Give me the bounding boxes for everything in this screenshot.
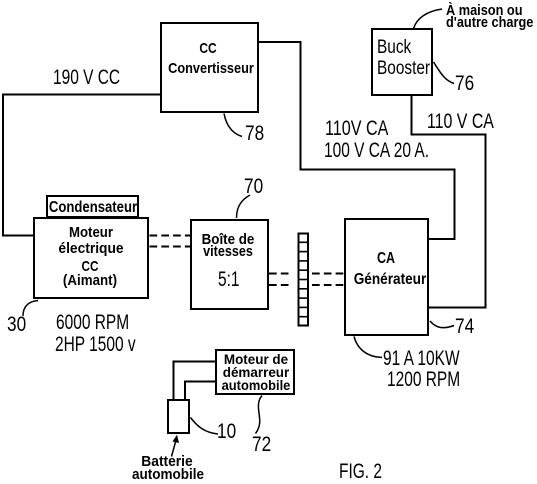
box: Moteur électrique CC (DC electric motor) 30	[33, 217, 149, 299]
label: 110V CA	[325, 118, 388, 140]
label: 110 V CA	[427, 111, 494, 133]
leader: to label 91 A 10KW	[354, 337, 382, 358]
reference numeral 70	[244, 176, 263, 198]
leader: to numeral 76	[434, 62, 455, 84]
coupling: chain/belt hatched bar	[299, 234, 309, 326]
shaft: dashed gearbox to generator lower	[269, 284, 290, 286]
wire: vertical x=454.5 down	[454, 169, 456, 241]
reference numeral 10	[217, 421, 236, 443]
label: gear ratio 5:1	[218, 269, 240, 291]
wire: CC Convertisseur output right	[258, 41, 302, 43]
leader: to numeral 74	[430, 321, 454, 328]
leader: to numeral 70	[237, 195, 251, 218]
reference numeral 72	[252, 434, 271, 456]
reference numeral 78	[245, 123, 264, 145]
label: Boîte de vitesses text	[157, 232, 299, 247]
shaft: dashed gearbox to generator upper	[269, 273, 290, 275]
label: 6000 RPM	[56, 312, 129, 334]
label: 190 V CC	[53, 67, 120, 89]
label: CA Générateur text	[323, 251, 448, 267]
label: Moteur électrique CC (Aimant) text	[21, 225, 162, 240]
leader: to numeral 78	[224, 114, 242, 137]
label: FIG. 2	[339, 461, 382, 483]
wire: 110 V CA vertical x=485.5	[485, 134, 487, 308]
reference numeral 30	[7, 314, 26, 336]
wire: battery to starter motor upper	[174, 362, 216, 401]
label: 1200 RPM	[387, 369, 460, 391]
reference numeral 76	[455, 73, 474, 95]
leader: to numeral 72	[256, 396, 263, 434]
shaft: dashed motor to gearbox upper	[150, 235, 191, 237]
arrow: to À maison ou d'autre charge	[414, 9, 443, 29]
label: Batterie automobile text	[93, 454, 240, 469]
wire: 190V CC horizontal from left riser to CC Convertisseur	[2, 94, 160, 96]
label: 2HP 1500 v	[55, 334, 136, 356]
label: À maison ou d'autre charge	[446, 3, 523, 18]
reference numeral 74	[455, 316, 474, 338]
wire: into Moteur électrique left side	[2, 235, 34, 237]
wire: into CA Générateur right side y=239	[428, 238, 456, 240]
box: CC Convertisseur (DC converter) U78	[160, 22, 259, 113]
wire: left vertical riser	[2, 94, 4, 237]
label: Condensateur text	[27, 200, 158, 216]
wire: horizontal y=134.5	[411, 134, 487, 136]
label: CC Convertisseur text	[144, 41, 272, 56]
label: Moteur de démarreur automobile text	[179, 352, 333, 366]
shaft: dashed motor to gearbox lower	[150, 246, 191, 248]
leader: to numeral 10	[191, 418, 219, 435]
box: Buck Booster U76	[371, 28, 433, 96]
box: Condensateur (capacitor)	[46, 195, 139, 218]
box: CA Générateur (AC generator) 74	[344, 218, 429, 336]
wire: vertical drop x=303.5	[300, 41, 302, 171]
label: Buck Booster text	[377, 38, 411, 57]
wire: Buck Booster bottom drop	[411, 95, 413, 136]
wire: into CA Générateur right side y=306.5	[428, 307, 487, 309]
leader: to numeral 30	[23, 301, 38, 317]
box: Moteur de démarreur automobile (car starter motor) 72	[215, 349, 295, 395]
wire: battery to starter motor lower	[185, 382, 216, 401]
box: Boîte de vitesses (gearbox) 70	[190, 219, 269, 310]
box: Batterie automobile (car battery) 10	[167, 399, 190, 434]
wire: horizontal y=169	[300, 169, 456, 171]
label: 100 V CA 20 A	[324, 140, 429, 162]
label: 91 A 10KW	[383, 348, 460, 370]
arrow: from Batterie label to battery box	[172, 435, 180, 457]
